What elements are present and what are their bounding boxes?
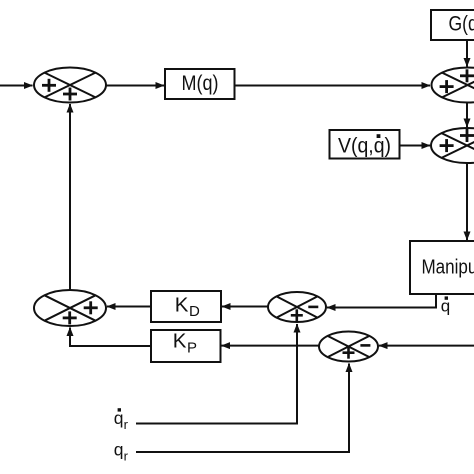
wire: G(q) down to J2 xyxy=(466,40,468,67)
svg-text:Manipulator: Manipulator xyxy=(422,257,474,279)
wire: qdot_r reference up into J5 bottom xyxy=(136,324,297,424)
J5 plus sign (bottom input) xyxy=(291,309,303,321)
svg-text:qr: qr xyxy=(114,408,129,432)
svg-text:G(q): G(q) xyxy=(449,13,474,36)
summing junction J5 (velocity error) xyxy=(268,292,326,322)
block G(q) (cut off at right edge) xyxy=(431,10,474,40)
label q_r xyxy=(114,439,129,463)
J6 plus sign (bottom input) xyxy=(343,347,355,359)
wire: V(q,qdot) to J3 xyxy=(400,145,431,147)
label qdot (manipulator velocity output) xyxy=(441,296,450,315)
wire: J3 down to Manipulator xyxy=(466,163,468,240)
summing junction J6 (position error) xyxy=(319,332,378,362)
J6 minus sign (right input) xyxy=(360,344,370,347)
J3 plus sign (left input) xyxy=(440,139,454,152)
wire: J4 up to J1 xyxy=(69,104,71,290)
block V(q,qdot) xyxy=(330,130,400,159)
summing junction J3 (velocity compensation, right, cut off) xyxy=(431,128,474,163)
block K_P xyxy=(151,330,221,362)
J4 plus sign (bottom input) xyxy=(63,311,77,324)
wire: J5 to K_D xyxy=(222,306,268,308)
J4 plus sign (right input) xyxy=(84,301,98,314)
J1 plus sign (left input) xyxy=(42,79,56,92)
J2 plus sign (top input) xyxy=(460,69,474,82)
wire: K_P left then up into J4 bottom xyxy=(70,328,151,347)
J1 plus sign (bottom input) xyxy=(63,88,77,101)
wire: J1 to M(q) xyxy=(106,85,164,87)
wire: J6 to K_P xyxy=(222,345,320,347)
label qdot_r xyxy=(114,408,129,432)
label V(q,qdot) xyxy=(338,134,391,157)
svg-text:M(q): M(q) xyxy=(182,72,219,95)
block Manipulator (cut off at right edge) xyxy=(410,241,474,294)
J2 plus sign (left input) xyxy=(440,80,454,93)
summing junction J4 (PD sum, bottom-left) xyxy=(34,290,106,326)
wire: q_r reference up into J6 bottom xyxy=(136,364,349,453)
wire: input arrow into summing junction J1 xyxy=(0,85,33,87)
block M(q) xyxy=(165,69,235,99)
wire: q position feedback from right edge into J6 xyxy=(379,345,474,347)
J3 plus sign (top input) xyxy=(460,129,474,142)
wire: M(q) to summing junction J2 xyxy=(235,85,431,87)
svg-text:V(q,q): V(q,q) xyxy=(338,135,391,158)
summing junction J1 (top-left) xyxy=(34,68,106,103)
wire: K_D to J4 xyxy=(107,306,151,308)
J5 minus sign (right input) xyxy=(308,306,318,309)
wire: J2 down to J3 xyxy=(466,103,468,128)
svg-text:KP: KP xyxy=(173,330,197,357)
svg-text:qr: qr xyxy=(114,439,129,463)
svg-text:KD: KD xyxy=(175,294,200,321)
block K_D xyxy=(151,291,221,322)
summing junction J2 (gravity, top-right, cut off) xyxy=(432,68,474,103)
wire: Manipulator qdot output down-left to J5 xyxy=(327,294,436,308)
